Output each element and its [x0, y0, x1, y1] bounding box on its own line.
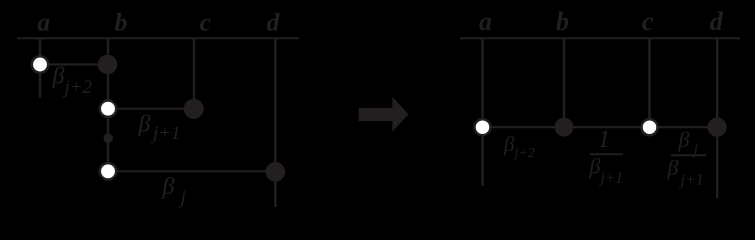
- node white circle on line b middle: [100, 101, 116, 117]
- wire edge beta j+1: [108, 108, 194, 110]
- wire vertical line b: [107, 38, 109, 172]
- node black circle on line b right: [555, 118, 574, 137]
- svg-text:b: b: [115, 7, 128, 36]
- arrow (transformation): [359, 97, 409, 132]
- svg-text:c: c: [200, 7, 211, 36]
- fraction bar beta j / beta j+1: [671, 154, 706, 156]
- svg-text:d: d: [710, 7, 724, 36]
- wire vertical line c right: [648, 38, 650, 127]
- wire vertical line a right: [481, 38, 483, 186]
- wire edge beta j: [108, 170, 275, 172]
- svg-text:a: a: [479, 7, 492, 36]
- wire top horizontal left: [17, 37, 299, 39]
- wire vertical line a: [39, 38, 41, 98]
- wire vertical line c: [193, 38, 195, 109]
- wire top horizontal right: [460, 37, 740, 39]
- svg-text:b: b: [556, 7, 569, 36]
- svg-text:1: 1: [598, 126, 611, 153]
- svg-text:c: c: [642, 7, 654, 36]
- node white circle on line a right: [475, 119, 491, 135]
- wire vertical line d right: [716, 38, 718, 198]
- svg-text:d: d: [267, 7, 281, 36]
- node white circle on line b bottom: [100, 163, 116, 179]
- node small dot on line b: [104, 134, 113, 143]
- wire vertical line b right: [563, 38, 565, 127]
- svg-text:a: a: [37, 7, 50, 36]
- node black circle on line d right: [708, 118, 727, 137]
- fraction bar 1/beta j+1: [590, 153, 623, 155]
- node black circle on line d: [266, 162, 286, 182]
- wire edge beta j+2: [40, 63, 108, 65]
- wire vertical line d: [274, 38, 276, 207]
- node black circle on line b top: [98, 55, 118, 75]
- wire horizontal edge right: [483, 126, 718, 128]
- node white circle on line c right: [642, 119, 658, 135]
- node black circle on line c: [184, 99, 204, 119]
- node white circle on line a: [32, 56, 48, 72]
